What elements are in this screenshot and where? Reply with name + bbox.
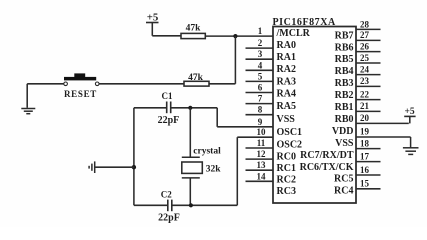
- svg-text:VSS: VSS: [277, 114, 296, 125]
- svg-text:19: 19: [360, 127, 370, 137]
- wire C2 to OSC2 branch: [172, 204, 238, 206]
- svg-text:RA5: RA5: [277, 101, 296, 112]
- crystal X1 32k: [182, 157, 203, 178]
- svg-text:RA4: RA4: [277, 89, 296, 100]
- wire to OSC1 pin 9: [217, 126, 273, 128]
- pin 3 stub: [246, 58, 274, 60]
- svg-text:VSS: VSS: [335, 138, 354, 149]
- svg-text:22: 22: [360, 89, 370, 99]
- pin 24 stub: [356, 74, 381, 76]
- pin 19 stub: [356, 136, 411, 138]
- wire corner down to ground: [26, 84, 28, 108]
- node OSC1: [188, 106, 192, 110]
- power +5 top-left: [146, 23, 159, 36]
- svg-text:RC3: RC3: [277, 186, 296, 197]
- resistor R2 47k: [184, 81, 209, 86]
- wire +5 to R1: [152, 35, 181, 37]
- svg-text:RA0: RA0: [277, 40, 296, 51]
- svg-text:47k: 47k: [188, 73, 204, 83]
- resistor R1 47k: [181, 33, 205, 38]
- svg-text:14: 14: [257, 171, 267, 181]
- svg-text:RC1: RC1: [277, 163, 296, 174]
- pin 8 stub: [246, 114, 274, 116]
- svg-text:+5: +5: [405, 107, 415, 117]
- pin 6 stub: [246, 92, 274, 94]
- pin 26 stub: [356, 51, 381, 53]
- svg-text:RB1: RB1: [335, 102, 354, 113]
- pin 27 stub: [356, 39, 381, 41]
- svg-text:RB6: RB6: [335, 42, 354, 53]
- svg-text:18: 18: [360, 138, 370, 148]
- ground under reset: [21, 109, 35, 114]
- pin 23 stub: [356, 85, 381, 87]
- svg-text:28: 28: [360, 19, 370, 29]
- svg-text:RB3: RB3: [335, 78, 354, 89]
- svg-text:RA3: RA3: [277, 76, 296, 87]
- pin 22 stub: [356, 99, 381, 101]
- svg-text:6: 6: [258, 83, 263, 93]
- svg-text:PIC16F87XA: PIC16F87XA: [273, 17, 337, 28]
- wire OSC2 branch up: [236, 137, 238, 205]
- svg-text:7: 7: [258, 94, 263, 104]
- wire to OSC2 pin 10: [237, 136, 273, 138]
- pin 28 stub: [356, 28, 381, 30]
- wire crystal bottom: [189, 178, 191, 205]
- svg-text:C2: C2: [161, 189, 172, 199]
- svg-text:RC5: RC5: [334, 174, 353, 185]
- wire R2 to junction: [209, 83, 235, 85]
- svg-text:OSC2: OSC2: [277, 139, 303, 150]
- svg-text:2: 2: [258, 38, 263, 48]
- wire left rail vertical: [133, 108, 135, 206]
- svg-text:23: 23: [360, 76, 370, 86]
- svg-text:4: 4: [258, 60, 263, 70]
- svg-text:RC0: RC0: [277, 151, 296, 162]
- pin 20 stub wire to +5: [356, 122, 409, 124]
- capacitor C2 22pF: [168, 200, 172, 212]
- switch RESET: [64, 73, 99, 85]
- svg-text:24: 24: [360, 64, 370, 74]
- svg-text:8: 8: [258, 105, 263, 115]
- wire C1 to OSC1 branch: [171, 107, 218, 109]
- svg-text:11: 11: [257, 138, 266, 148]
- svg-text:RB7: RB7: [335, 30, 354, 41]
- svg-text:RB0: RB0: [335, 114, 354, 125]
- pin 25 stub: [356, 62, 381, 64]
- power +5 right: [404, 116, 415, 123]
- pin 2 stub: [246, 47, 274, 49]
- wire rail to C2: [134, 204, 168, 206]
- svg-text:3: 3: [258, 49, 263, 59]
- svg-text:crystal: crystal: [193, 147, 221, 157]
- ground right: [403, 137, 419, 154]
- node OSC2: [189, 203, 193, 207]
- svg-text:20: 20: [360, 113, 370, 123]
- svg-text:26: 26: [360, 41, 370, 51]
- pin 21 stub: [356, 110, 381, 112]
- svg-text:47k: 47k: [186, 24, 202, 34]
- pin 17 stub: [356, 161, 381, 163]
- svg-text:OSC1: OSC1: [277, 127, 303, 138]
- wire junction down to reset line: [234, 36, 236, 84]
- svg-text:/MCLR: /MCLR: [276, 28, 311, 39]
- svg-text:25: 25: [360, 53, 370, 63]
- wire ground branch: [95, 166, 134, 168]
- svg-text:C1: C1: [162, 91, 173, 101]
- pin 15 stub: [356, 188, 381, 190]
- svg-text:10: 10: [257, 127, 267, 137]
- wire left rail to C1: [134, 107, 167, 109]
- wire R1 to MCLR pin 1: [205, 35, 273, 37]
- svg-text:9: 9: [258, 117, 263, 127]
- pin 5 stub: [246, 80, 274, 82]
- wire button left to corner: [27, 83, 64, 85]
- svg-text:RA2: RA2: [277, 64, 296, 75]
- svg-text:RB5: RB5: [335, 54, 354, 65]
- pin 7 stub: [246, 103, 274, 105]
- wire button to R2: [99, 83, 184, 85]
- svg-text:RB4: RB4: [335, 66, 354, 77]
- pin 11 stub: [246, 147, 274, 149]
- pin 4 stub: [246, 69, 274, 71]
- svg-text:RESET: RESET: [64, 89, 97, 99]
- node MCLR junction: [233, 34, 237, 38]
- svg-text:22pF: 22pF: [158, 212, 180, 223]
- svg-text:13: 13: [257, 160, 267, 170]
- node ground rail: [132, 165, 136, 169]
- svg-text:32k: 32k: [206, 164, 222, 174]
- pin 18 stub wire to ground: [356, 148, 381, 150]
- pin 13 stub: [246, 169, 274, 171]
- svg-text:15: 15: [360, 179, 370, 189]
- svg-text:RC4: RC4: [334, 186, 353, 197]
- svg-text:1: 1: [258, 26, 263, 36]
- svg-text:17: 17: [360, 151, 370, 161]
- svg-text:+5: +5: [147, 12, 159, 24]
- svg-text:RB2: RB2: [335, 90, 354, 101]
- capacitor C1 22pF: [167, 102, 171, 114]
- svg-text:21: 21: [360, 101, 370, 111]
- pin 14 stub: [246, 180, 274, 182]
- pin 12 stub: [246, 158, 274, 160]
- svg-text:VDD: VDD: [332, 126, 354, 137]
- svg-text:12: 12: [257, 149, 267, 159]
- svg-text:RA1: RA1: [277, 52, 296, 63]
- IC U1 body: [273, 27, 356, 204]
- svg-text:16: 16: [360, 165, 370, 175]
- svg-text:RC6/TX/CK: RC6/TX/CK: [300, 162, 354, 173]
- svg-text:5: 5: [258, 71, 263, 81]
- svg-text:RC2: RC2: [277, 175, 296, 186]
- pin 16 stub: [356, 174, 381, 176]
- svg-text:RC7/RX/DT: RC7/RX/DT: [300, 150, 354, 161]
- ground left mid: [89, 161, 95, 173]
- wire OSC1 node to crystal: [189, 108, 191, 158]
- wire OSC1 branch down: [216, 108, 218, 127]
- svg-text:22pF: 22pF: [158, 115, 180, 126]
- svg-text:27: 27: [360, 30, 370, 40]
